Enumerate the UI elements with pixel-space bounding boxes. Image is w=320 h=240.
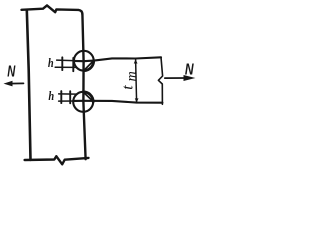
weld fillet section in W2 (chord + thick arc, upper-right quadrant) bbox=[85, 93, 93, 100]
dimension h (lower): tick marks bbox=[60, 91, 62, 103]
wire: horizontal plate top edge bbox=[74, 57, 162, 61]
wire: horizontal plate bottom edge bbox=[73, 101, 162, 103]
weld detail circle W1 (upper) bbox=[74, 51, 94, 71]
svg-text:h: h bbox=[48, 89, 54, 103]
dimension h (upper weld leg): lower rail bbox=[55, 66, 76, 68]
wire: vertical plate right edge (joint face) bbox=[82, 14, 85, 159]
dimension h (upper): tick marks bbox=[61, 57, 63, 70]
wire: top edge extension (upper h rail) bbox=[57, 59, 77, 62]
svg-text:N: N bbox=[7, 63, 15, 80]
wire: vertical plate top edge with break symbol bbox=[22, 5, 83, 14]
arrowhead left N bbox=[4, 81, 13, 87]
wire: vertical plate left edge bbox=[27, 10, 31, 160]
arrowhead t_m bottom bbox=[135, 98, 139, 102]
force arrow N (left) shaft bbox=[8, 82, 24, 84]
dimension line t_m (vertical, with arrowheads) bbox=[136, 60, 137, 103]
weld detail circle W2 (lower) bbox=[73, 92, 93, 112]
dimension h (lower weld leg): upper rail bbox=[59, 93, 77, 95]
svg-text:N: N bbox=[185, 60, 195, 78]
arrowhead right N bbox=[184, 75, 196, 81]
wire: bottom edge extension (lower h rail) bbox=[59, 100, 77, 102]
wire: vertical plate bottom edge with break symbol bbox=[25, 156, 89, 164]
arrowhead t_m top bbox=[134, 59, 138, 63]
break line at right end of horizontal plate bbox=[158, 57, 162, 104]
force arrow N (right) shaft bbox=[165, 77, 186, 79]
svg-text:h: h bbox=[48, 56, 54, 70]
weld fillet section in W1 (chord + thick arc, lower-right quadrant) bbox=[84, 61, 93, 70]
